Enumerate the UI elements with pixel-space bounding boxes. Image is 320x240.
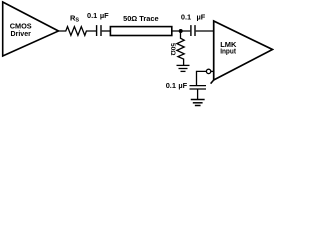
svg-text:50Ω: 50Ω (169, 43, 176, 56)
svg-text:0.1µF: 0.1µF (181, 13, 206, 22)
svg-text:0.1µF: 0.1µF (166, 81, 188, 90)
svg-text:S: S (75, 17, 79, 23)
svg-text:50Ω Trace: 50Ω Trace (123, 14, 159, 23)
svg-text:0.1µF: 0.1µF (87, 11, 109, 20)
svg-text:Driver: Driver (11, 29, 31, 38)
svg-text:Input: Input (220, 46, 236, 55)
